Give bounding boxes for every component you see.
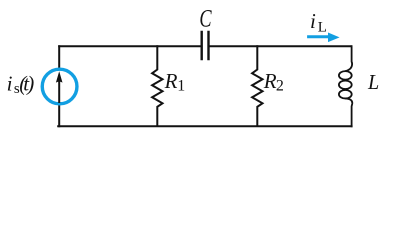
svg-text:2: 2: [276, 77, 284, 94]
svg-text:R: R: [263, 69, 277, 93]
svg-text:L: L: [318, 20, 327, 36]
svg-text:1: 1: [177, 77, 185, 94]
svg-text:R: R: [164, 69, 178, 93]
svg-text:i: i: [310, 9, 316, 33]
svg-text:): ): [26, 72, 34, 96]
svg-text:L: L: [367, 70, 379, 94]
svg-text:i: i: [7, 72, 13, 96]
svg-text:C: C: [199, 5, 211, 32]
